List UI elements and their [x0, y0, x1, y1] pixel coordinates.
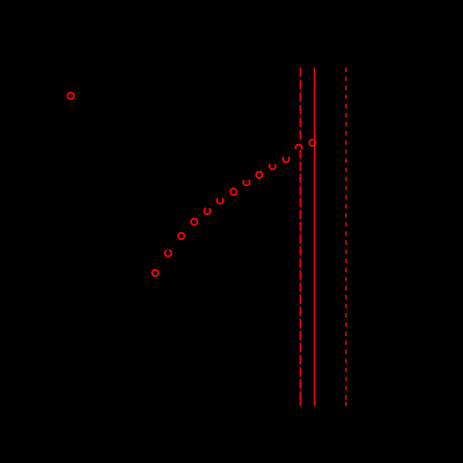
wire: long bottom dash of left dashed line [299, 391, 301, 405]
node 8 (gap at top) [243, 180, 249, 185]
wire: dashed vertical line lower part (below occlusion) [299, 149, 301, 405]
node 4 [191, 219, 197, 225]
node 10 (gap at top) [269, 164, 275, 169]
node 1 [152, 270, 158, 276]
wire: solid vertical line (estimate) [313, 67, 315, 405]
node 2 (small gap at top) [165, 250, 171, 256]
node 6 (gap at top) [217, 198, 223, 203]
node 3 [178, 233, 184, 239]
node 12 (top arc only) [295, 145, 301, 150]
node 2 faint occluded top [167, 249, 169, 251]
node 5 (gap at top) [204, 208, 210, 214]
node: outlier point [68, 93, 74, 99]
wire: bottom dash of right dashed line [345, 402, 347, 406]
node 9 [256, 172, 262, 178]
wire: dashed vertical line (upper CI bound, dashed) [345, 67, 347, 405]
node 7 [230, 189, 236, 195]
node 11 (gap at top) [283, 157, 289, 162]
wire: dashed vertical line (lower CI bound, longdash) [299, 67, 301, 139]
node 13 [309, 140, 315, 146]
